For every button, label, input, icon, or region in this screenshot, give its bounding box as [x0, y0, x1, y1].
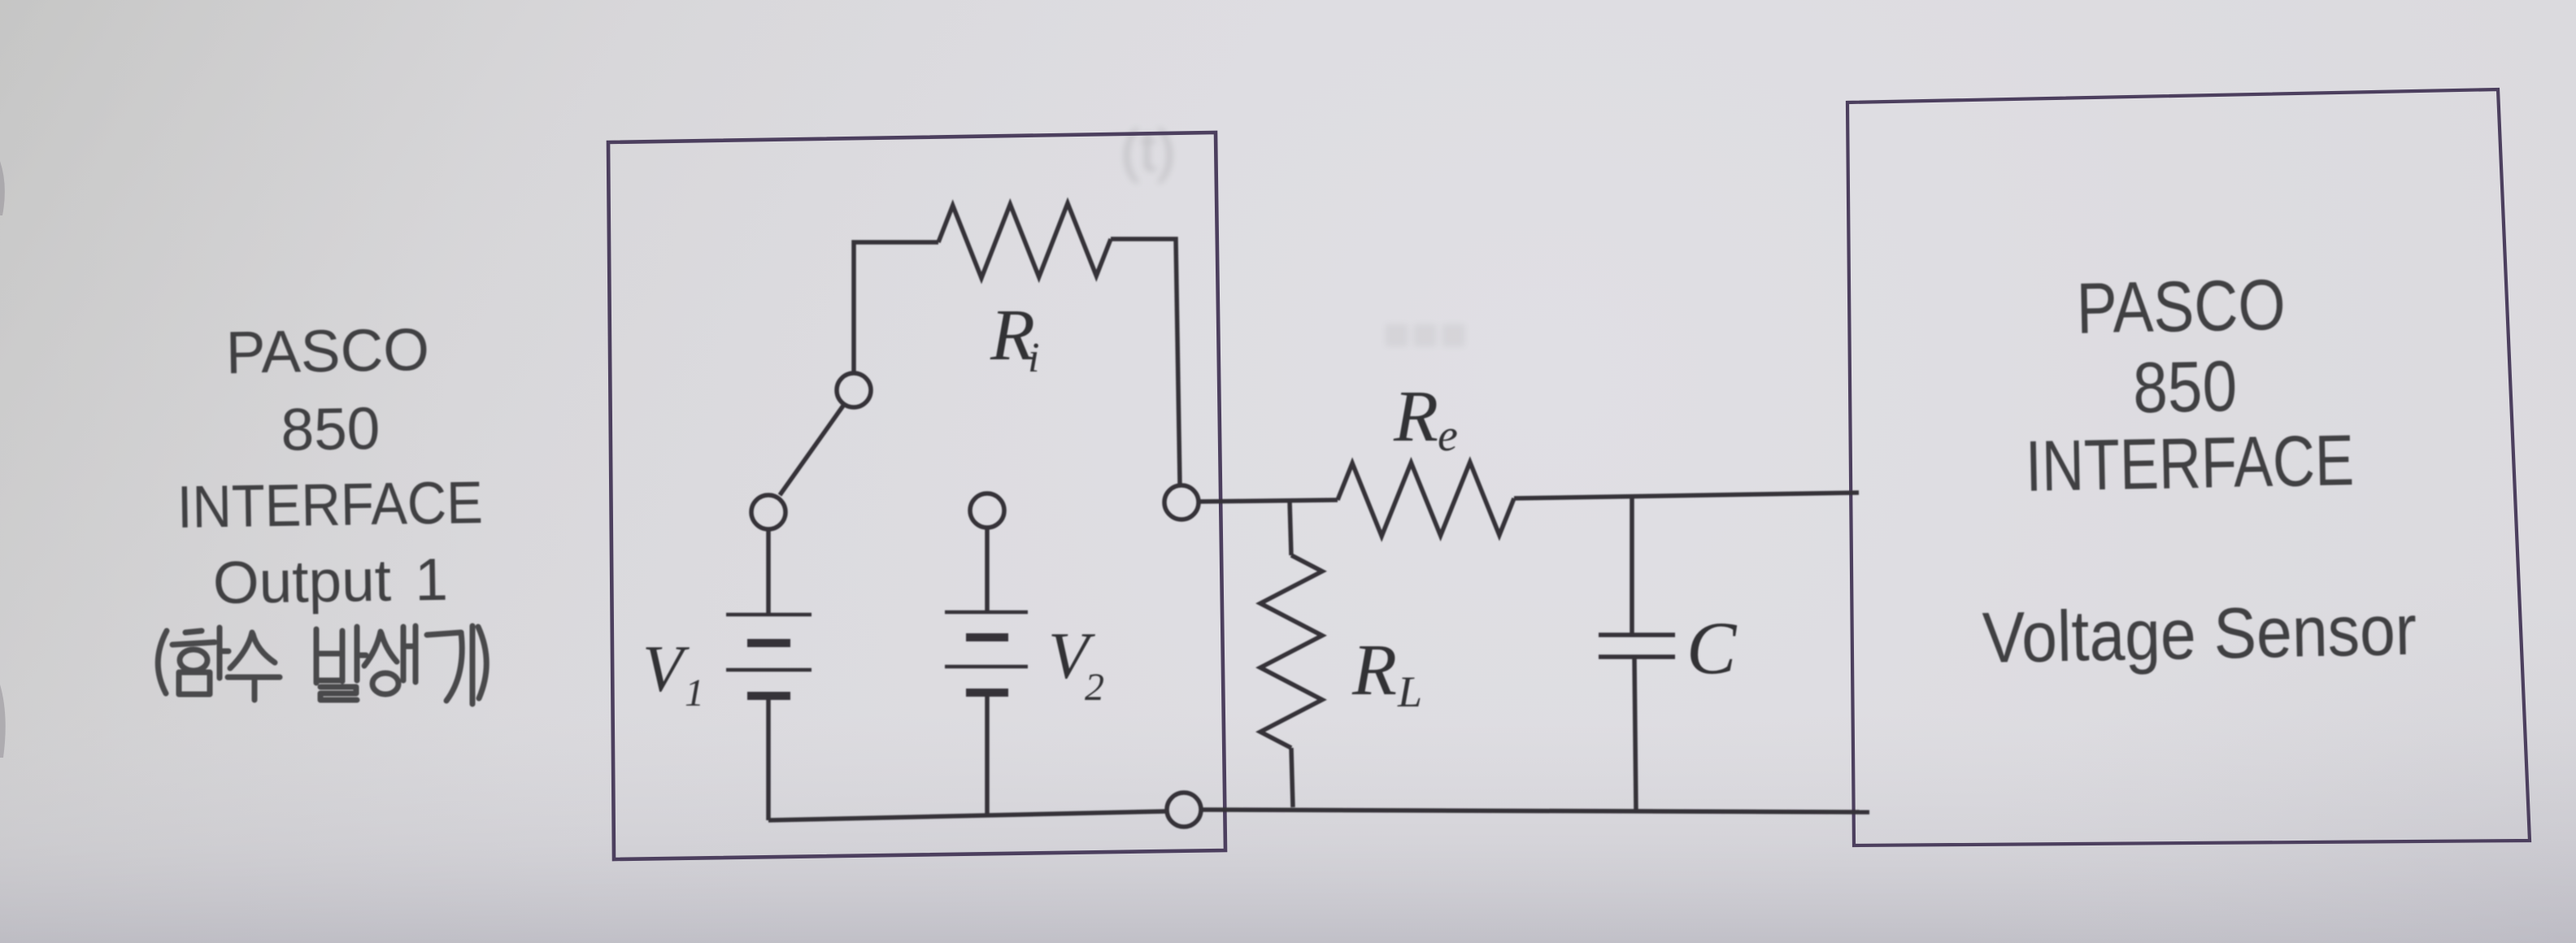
V2 top contact	[970, 493, 1004, 528]
wire RL top	[1290, 501, 1291, 555]
svg-text:R: R	[1393, 376, 1438, 457]
wire Ri to top terminal	[1111, 239, 1180, 485]
right device box (voltage sensor)	[1847, 89, 2530, 845]
svg-text:V: V	[642, 632, 690, 706]
svg-text:PASCO: PASCO	[225, 317, 429, 386]
bottom wire to sensor box	[1201, 810, 1869, 812]
resistor Re	[1338, 463, 1514, 537]
label RL	[1351, 630, 1422, 716]
svg-text:e: e	[1438, 411, 1458, 461]
svg-text:INTERFACE: INTERFACE	[2025, 419, 2355, 506]
wire Re to sensor box	[1514, 493, 1859, 498]
label V2	[1048, 619, 1104, 709]
label Re	[1393, 376, 1458, 461]
battery V2	[945, 528, 1028, 815]
page-edge artifact marks	[0, 161, 5, 215]
left caption text block	[174, 316, 485, 617]
switch arm	[780, 406, 843, 495]
switch pivot contact	[837, 373, 871, 407]
wire switch to Ri	[854, 242, 938, 372]
capacitor C stem top	[1630, 496, 1634, 635]
resistor RL	[1260, 555, 1322, 748]
svg-text:i: i	[1028, 335, 1039, 381]
svg-text:PASCO: PASCO	[2076, 264, 2287, 349]
svg-text:R: R	[1351, 630, 1397, 711]
output terminal top	[1164, 485, 1199, 519]
faint print bleed-through marks	[1120, 119, 1468, 360]
battery V1	[726, 529, 812, 820]
label V1	[642, 632, 704, 715]
svg-text:1: 1	[685, 671, 704, 715]
svg-text:850: 850	[281, 396, 381, 463]
svg-text:850: 850	[2132, 345, 2238, 428]
left device box (PASCO 850 output)	[608, 133, 1225, 859]
svg-text:INTERFACE: INTERFACE	[176, 470, 483, 541]
svg-text:Voltage Sensor: Voltage Sensor	[1982, 589, 2417, 678]
capacitor C stem bottom	[1634, 657, 1636, 810]
svg-text:■■■: ■■■	[1382, 307, 1468, 360]
label Ri	[990, 295, 1039, 381]
capacitor C plates	[1599, 632, 1675, 637]
svg-text:L: L	[1397, 667, 1422, 716]
wire RL bottom	[1291, 748, 1293, 807]
output terminal bottom	[1167, 793, 1201, 827]
svg-text:Output 1: Output 1	[212, 547, 448, 617]
svg-text:(t): (t)	[1120, 119, 1176, 184]
V1 top contact	[751, 495, 785, 529]
resistor Ri	[938, 203, 1111, 278]
bottom wire inside box	[768, 811, 1167, 820]
right caption text block	[1975, 262, 2417, 678]
caption Korean line "(함수 발생기)"	[158, 626, 486, 704]
top wire to Re	[1199, 500, 1338, 502]
svg-text:2: 2	[1085, 666, 1104, 709]
svg-text:C: C	[1686, 606, 1738, 689]
